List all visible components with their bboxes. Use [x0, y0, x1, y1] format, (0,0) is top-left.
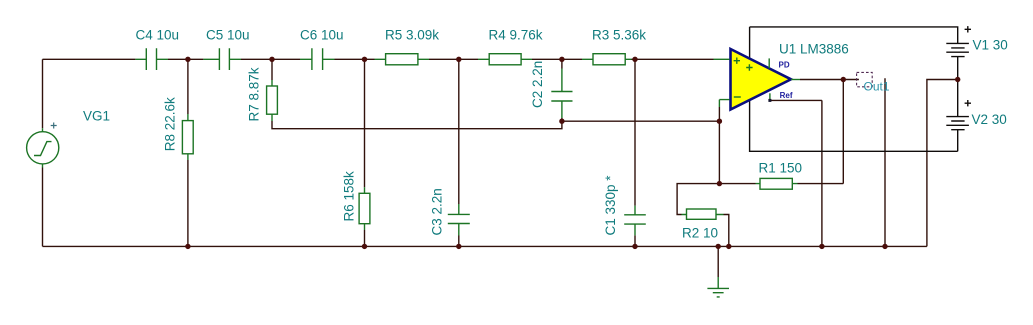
node Out1 marker (dashed box): [857, 72, 873, 86]
wire feedback node to R2 loop: [677, 184, 719, 215]
op-amp U1 LM3886: [731, 49, 792, 110]
wire Ref drop to bottom rail: [821, 100, 823, 246]
junction top rail at R3-C1: [632, 57, 637, 62]
resistor R4: [478, 54, 532, 65]
battery V1: [946, 43, 969, 56]
wire R7 bottom jog to C2 node: [272, 121, 562, 129]
wire feedback node to R1 left: [719, 183, 755, 185]
wire C1 top: [634, 59, 636, 205]
wire C4 to C5 through node A: [168, 58, 203, 60]
svg-text:PD: PD: [779, 61, 790, 70]
wire R5 to R4 through node D: [429, 58, 478, 60]
junction bottom rail at R6: [362, 244, 367, 249]
wire U1 output: [800, 79, 859, 81]
resistor R5: [375, 54, 430, 65]
U1 plus power mark: [746, 64, 752, 70]
svg-text:V2 30: V2 30: [972, 112, 1007, 127]
svg-text:Out1: Out1: [864, 80, 890, 94]
wire R1 right to feedback riser: [798, 183, 844, 185]
svg-text:R7 8.87k: R7 8.87k: [247, 67, 262, 121]
wire V+ rail to V1: [750, 27, 958, 44]
resistor R2: [682, 209, 724, 219]
resistor R3: [582, 54, 632, 65]
battery V2: [946, 117, 969, 130]
wire R6 bottom: [364, 230, 366, 246]
svg-text:R6 158k: R6 158k: [342, 171, 357, 222]
svg-text:VG1: VG1: [83, 108, 110, 123]
svg-text:C4 10u: C4 10u: [136, 28, 180, 43]
wire C5 to C6 through node B: [241, 58, 300, 60]
wire feedback riser to output node: [842, 80, 844, 184]
wire R2 right drop: [724, 215, 729, 247]
junction bottom rail at ground: [716, 244, 721, 249]
wire C2 node to inverting node: [562, 120, 720, 122]
wire V- line to U1: [750, 100, 958, 151]
svg-text:V1 30: V1 30: [973, 38, 1008, 53]
wire top rail VG1 to C4: [43, 58, 136, 60]
wire V2 top stem: [957, 80, 959, 117]
resistor R7: [267, 80, 278, 121]
ground: [707, 277, 729, 297]
svg-text:C2 2.2n: C2 2.2n: [530, 61, 545, 108]
wire VG1 bottom vertical: [42, 168, 44, 247]
U1 minus input mark: [734, 96, 741, 98]
wire C2 bottom to node: [561, 118, 563, 121]
capacitor C2: [551, 69, 572, 119]
wire V1 bottom stem: [957, 57, 959, 80]
wire ground stem: [717, 246, 719, 277]
svg-text:R4 9.76k: R4 9.76k: [489, 28, 543, 43]
capacitor C3: [448, 204, 470, 236]
junction bottom rail at R2: [726, 244, 731, 249]
wire R7 top: [271, 59, 273, 80]
VG1 plus mark: [51, 123, 57, 129]
U1 Ref pin terminal: [768, 99, 771, 102]
wire R6 top: [364, 59, 366, 187]
junction top rail at C4-C5-R8: [185, 57, 190, 62]
svg-text:C1 330p *: C1 330p *: [603, 175, 618, 236]
wire Out1 drop to bottom rail: [884, 78, 886, 246]
junction battery midpoint: [955, 77, 960, 82]
junction top rail at C5-C6-R7: [269, 57, 274, 62]
resistor R6: [359, 187, 370, 230]
wire V2 bottom stem: [957, 130, 959, 152]
svg-text:R5 3.09k: R5 3.09k: [385, 28, 439, 43]
V2 plus mark: [965, 100, 971, 106]
resistor R8: [182, 114, 193, 160]
junction bottom rail at Out1: [882, 244, 887, 249]
U1 output lead: [791, 79, 800, 81]
junction bottom rail at R8: [185, 244, 190, 249]
junction C2 bottom node: [559, 119, 564, 124]
wire C3 top: [458, 59, 460, 204]
wire R3 to U1 noninverting input: [632, 58, 714, 60]
wire U1 V+ pin: [749, 27, 751, 59]
junction bottom rail at C1: [632, 244, 637, 249]
junction feedback node: [717, 181, 722, 186]
svg-text:C5 10u: C5 10u: [206, 28, 250, 43]
junction top rail at R4-R3-C2: [559, 57, 564, 62]
svg-text:R3 5.36k: R3 5.36k: [592, 28, 646, 43]
junction bottom rail at Ref: [819, 244, 824, 249]
wire R4 to R3 through node E: [532, 58, 582, 60]
wire C1 bottom: [634, 235, 636, 246]
U1 inverting input lead: [719, 100, 729, 107]
wire C2 top: [561, 59, 563, 68]
wire R8 bottom: [187, 160, 189, 246]
wire C3 bottom: [458, 236, 460, 247]
capacitor C1: [624, 206, 646, 236]
wire bottom rail: [43, 245, 927, 247]
junction top rail at C6-R5-R6: [362, 57, 367, 62]
svg-text:Ref: Ref: [780, 91, 793, 100]
U1 noninverting input lead: [714, 58, 730, 60]
svg-text:C3 2.2n: C3 2.2n: [430, 188, 445, 235]
U1 plus input mark: [734, 58, 740, 64]
resistor R1: [756, 178, 798, 189]
svg-text:R1 150: R1 150: [759, 160, 803, 175]
svg-text:R8 22.6k: R8 22.6k: [163, 97, 178, 151]
voltage generator VG1: [27, 128, 59, 167]
wire inverting input vertical: [718, 107, 720, 184]
V1 plus mark: [965, 26, 971, 32]
junction top rail at R5-R4-C3: [456, 57, 461, 62]
svg-text:R2 10: R2 10: [682, 226, 718, 241]
wire C6 to R5 through node C: [335, 58, 375, 60]
svg-text:C6 10u: C6 10u: [300, 28, 344, 43]
U1 PD pin stub: [768, 58, 770, 68]
wire Ref pin horizontal: [771, 99, 822, 101]
capacitor C6: [300, 48, 335, 70]
wire R8 top: [187, 59, 189, 114]
junction output node: [841, 77, 846, 82]
capacitor C4: [135, 48, 168, 70]
junction bottom rail at C3: [456, 244, 461, 249]
wire battery midpoint tap: [927, 80, 958, 247]
U1 Ref pin stub: [769, 93, 771, 100]
wire VG1 top vertical: [42, 59, 44, 128]
capacitor C5: [203, 48, 241, 70]
svg-text:U1 LM3886: U1 LM3886: [779, 42, 849, 57]
junction inverting input node: [717, 119, 722, 124]
